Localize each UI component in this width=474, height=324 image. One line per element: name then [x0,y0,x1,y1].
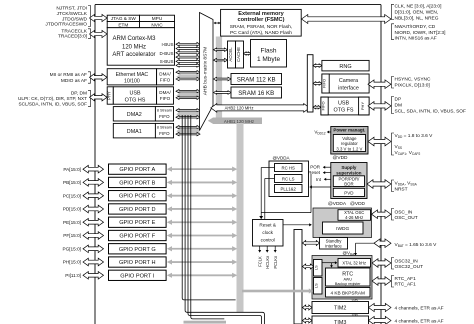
svg-text:GPIO PORT E: GPIO PORT E [119,220,155,226]
wire TIM2 APB arrow [303,305,313,310]
bus AHB2 120 MHz [211,104,310,113]
svg-text:PI[11:0]: PI[11:0] [65,273,81,278]
svg-text:PC Card (ATA), NAND Flash: PC Card (ATA), NAND Flash [230,30,292,36]
wire APB2 bus line [182,115,235,300]
wire NRST arrow [367,180,391,189]
block External memory controller FSMC [221,9,302,36]
svg-text:CLK, NE [3:0], A[23:0]: CLK, NE [3:0], A[23:0] [395,4,442,10]
node VDD pins label [392,133,395,155]
wire port E AHB1 connection [171,221,233,223]
svg-text:SRAM 16 KB: SRAM 16 KB [238,90,274,97]
wire OSC pins arrow [372,210,392,219]
svg-text:RNG: RNG [339,64,351,70]
svg-text:DMA1: DMA1 [127,129,142,135]
wire matrix-ACCEL arrows [214,48,228,51]
node USB FS pins label [392,97,395,114]
chip right border [380,5,382,324]
bus AHB1 120 MHz [213,118,262,125]
svg-text:PVD: PVD [344,190,354,195]
svg-text:AHB bus-matrix 8S7M: AHB bus-matrix 8S7M [203,47,209,95]
bus AHB bus-matrix [200,13,214,131]
svg-text:PLL1&2: PLL1&2 [281,186,297,191]
svg-text:DMA2: DMA2 [127,112,142,118]
bus APB1 vertical bar [294,230,302,324]
svg-text:JTAG & SW: JTAG & SW [111,16,136,21]
bus gray bottom stub [184,321,227,324]
svg-text:JTDO/SWD: JTDO/SWD [62,16,88,22]
svg-text:NRST: NRST [395,186,408,192]
wire FCLK output [259,246,261,251]
wire camera pins arrow [368,80,391,89]
block Ethernet DMA/FIFO [157,69,174,85]
wire OSC32 pins arrow [372,259,391,268]
svg-text:@VDDA: @VDDA [272,155,289,160]
svg-text:S-BUS: S-BUS [160,59,174,64]
svg-text:I-BUS: I-BUS [161,42,173,47]
svg-text:DMA/: DMA/ [159,72,171,77]
svg-text:@VDDA: @VDDA [328,201,347,207]
block DMA2 FIFO [155,107,173,121]
block RC HS oscillator [275,164,303,172]
wire Ethernet arrow [90,74,108,81]
wire supply-PLL arrow [310,186,331,188]
block IWDG [323,222,364,234]
wire RC HS to clock control [261,167,274,169]
svg-text:clock: clock [262,230,273,235]
svg-text:SRAM 112 KB: SRAM 112 KB [237,77,276,84]
wire port G AHB1 connection [171,248,233,250]
svg-text:ETM: ETM [118,22,128,27]
svg-text:FIFO: FIFO [160,78,171,83]
wire XTAL32 to RTC [331,263,333,267]
svg-text:@VDD: @VDD [333,155,349,161]
svg-text:DP: DP [395,97,402,103]
svg-text:Reset: Reset [308,170,321,175]
wire APB1 to LS2 gray arrow [242,290,309,293]
block DMA1 [113,123,155,137]
block SRAM 112 KB [231,74,282,85]
wire VBAT arrow [374,239,391,248]
wire DMA1-matrix arrows [176,126,200,129]
svg-text:4 channels, ETR as AF: 4 channels, ETR as AF [395,319,444,324]
block Flash 1 Mbyte [251,40,287,68]
svg-text:XTAL 32 kHz: XTAL 32 kHz [342,261,366,266]
block RTC LS interface 2 [314,278,323,295]
wire LS1 APB arrow [303,264,314,269]
wire Ethernet-matrix arrows [176,71,200,74]
wire port B AHB1 connection [171,181,233,183]
svg-text:Camera: Camera [339,78,358,84]
svg-text:LS: LS [314,265,319,270]
wire port F pin arrow [83,232,104,240]
block TIM3 [312,316,369,324]
svg-text:GPIO PORT D: GPIO PORT D [119,207,155,213]
wire port I pin arrow [83,272,104,280]
svg-text:Reset &: Reset & [259,223,277,228]
svg-text:PG[15:0]: PG[15:0] [62,246,81,251]
svg-text:ARM Cortex-M3: ARM Cortex-M3 [112,36,156,42]
wire RTC AF arrow [372,277,391,286]
wire LS to XTAL32 arrow [322,262,337,264]
svg-text:NWAIT/IORDY, CD: NWAIT/IORDY, CD [395,24,436,30]
wire PCLKx output [274,246,276,251]
wire TIM2 pins arrow [369,303,392,311]
svg-text:BOR: BOR [344,182,353,187]
wire I-BUS arrows [176,42,200,46]
block DMA1 FIFO [155,123,173,137]
block oscillator gray region [313,208,372,238]
svg-text:PHY: PHY [360,102,365,111]
svg-text:GPIO PORT F: GPIO PORT F [119,234,155,240]
svg-text:interface: interface [325,243,342,248]
bus FSMC gray vertical path [216,37,222,123]
node OSC pins label [392,209,395,221]
svg-text:TIM3: TIM3 [334,320,346,324]
wire USB FS pins arrow [368,102,391,111]
svg-text:4 KB BKPSRAM: 4 KB BKPSRAM [331,291,365,296]
svg-text:D-BUS: D-BUS [159,51,173,56]
svg-text:ACCEL: ACCEL [228,47,233,62]
svg-text:FIFO: FIFO [321,101,326,110]
block ACCEL/CACHE [228,41,236,68]
svg-text:FCLK: FCLK [257,256,262,267]
block ARM Cortex-M3 CPU [107,28,174,65]
wire TIM3 pins arrow [369,316,392,324]
svg-text:SCL/SDA, INTN, ID, VBUS, SOF: SCL/SDA, INTN, ID, VBUS, SOF [18,102,87,107]
wire matrix-SRAM112 arrow [214,77,232,81]
svg-text:controller (FSMC): controller (FSMC) [238,17,285,23]
block backup domain gray region [312,256,372,300]
svg-text:GPIO PORT G: GPIO PORT G [119,247,156,253]
wire port D pin arrow [83,205,104,213]
svg-text:Power managt.: Power managt. [333,128,365,133]
block SRAM 16 KB [231,87,282,98]
wire port G pin arrow [83,245,104,253]
svg-text:NJTRST, JTDI: NJTRST, JTDI [56,6,87,12]
wire port I AHB1 connection [171,274,233,276]
block USB OTG HS [113,87,156,104]
svg-text:MII or RMII as AF: MII or RMII as AF [50,72,87,78]
block XTAL OSC 4-26 MHz [338,210,371,221]
block GPIO PORT I [109,270,167,280]
svg-text:AWU: AWU [343,277,352,281]
block PLL1&2 [275,185,303,193]
block PVD [333,188,364,196]
svg-text:MPU: MPU [152,16,163,21]
svg-text:GPIO PORT I: GPIO PORT I [120,273,154,279]
node FSMC pins label [392,4,395,19]
svg-text:4 channels, ETR as AF: 4 channels, ETR as AF [395,306,444,312]
svg-text:FIFO: FIFO [159,114,170,119]
svg-text:DM: DM [395,103,402,109]
svg-text:NVIC: NVIC [151,22,163,27]
svg-text:32b: 32b [351,298,357,302]
svg-text:D[31:0], OEN, WEN,: D[31:0], OEN, WEN, [395,10,439,16]
svg-text:NBL[3:0], NL, NREG: NBL[3:0], NL, NREG [395,16,439,22]
svg-text:OSC_IN: OSC_IN [395,209,413,215]
node camera pins label [392,77,395,89]
wire port A AHB1 connection [171,168,233,170]
svg-text:120 MHz: 120 MHz [122,44,146,50]
svg-text:VCAP1, VCAP2: VCAP1, VCAP2 [395,150,421,156]
wire S-BUS arrows [176,60,200,64]
wire TRACE arrow [90,30,108,37]
svg-text:4-26 MHz: 4-26 MHz [345,215,363,220]
svg-text:LS: LS [314,283,319,288]
svg-text:PHY: PHY [106,91,111,100]
wire USB HS-matrix arrows [176,90,200,93]
svg-text:ULPI: CK, D(7:0), DIR, STP, NX: ULPI: CK, D(7:0), DIR, STP, NXT [18,96,87,101]
block XTAL 32 kHz [338,259,371,268]
svg-text:Backup register: Backup register [335,282,361,286]
block supply supervision [331,163,367,199]
svg-text:OSC_OUT: OSC_OUT [395,215,418,221]
svg-text:GPIO PORT A: GPIO PORT A [119,167,155,173]
svg-text:Ethernet MAC: Ethernet MAC [116,72,149,78]
svg-text:8 Stream: 8 Stream [157,125,172,129]
svg-text:GPIO PORT H: GPIO PORT H [119,260,155,266]
wire RC LS to clock control [265,178,275,180]
svg-text:GPIO PORT C: GPIO PORT C [119,194,155,200]
block GPIO PORT D [109,204,167,214]
svg-text:HSYNC, VSYNC: HSYNC, VSYNC [395,77,432,83]
svg-text:JTCK/SWCLK: JTCK/SWCLK [57,11,88,17]
svg-text:USB: USB [129,90,140,96]
block clock sources group [269,161,309,197]
block USB HS DMA/FIFO [157,87,174,104]
block RTC [326,268,371,286]
wire DMA2-matrix arrows [176,109,200,112]
chip left border [94,5,96,324]
svg-text:TRACECLK: TRACECLK [61,28,87,34]
wire clock control to XTAL OSC [283,224,311,226]
svg-text:PCLKx: PCLKx [273,256,278,269]
wire matrix-SRAM16 arrow [214,91,232,95]
svg-text:PB[15:0]: PB[15:0] [63,180,81,185]
wire HCLKx output [266,246,268,251]
wire APB1 bus line [185,115,264,324]
svg-text:interface: interface [338,85,359,91]
wire port F AHB1 connection [171,235,233,237]
block MPU [140,15,175,21]
svg-text:ART accelerator: ART accelerator [112,52,155,58]
block POR/PDR/BOR [333,176,364,187]
svg-text:AHB2 120 MHz: AHB2 120 MHz [225,106,254,111]
wire VDD pins arrow [368,137,391,146]
block RC LS oscillator [275,175,303,183]
wire port C AHB1 connection [171,195,233,197]
wire port H AHB1 connection [171,261,233,263]
svg-text:PD[15:0]: PD[15:0] [63,207,81,212]
svg-text:PIXCLK, D[13:0]: PIXCLK, D[13:0] [395,83,430,89]
block GPIO PORT C [109,191,167,201]
svg-text:@VDD: @VDD [350,201,366,207]
block GPIO PORT E [109,217,167,227]
svg-text:VDD12: VDD12 [314,130,325,136]
node RTC_AF label [392,276,395,288]
svg-text:VSS: VSS [395,144,402,150]
svg-text:PE[15:0]: PE[15:0] [63,220,81,225]
wire bar-USBFS arrow [313,105,321,109]
wire USB HS arrow [90,94,108,101]
block GPIO PORT A [109,164,167,174]
block power management [331,127,368,155]
node VDDA/NRST label [392,180,395,192]
node OSC32 pins label [392,258,395,270]
svg-text:PC[15:0]: PC[15:0] [63,193,81,198]
block RNG [322,60,369,71]
svg-text:FIFO: FIFO [160,96,171,101]
block Ethernet MAC 10/100 [107,69,156,85]
wire matrix-FSMC arrow [215,22,219,24]
svg-text:RTC_AF1: RTC_AF1 [395,276,417,282]
wire port A pin arrow [83,165,104,173]
wire D-BUS arrows [176,51,200,55]
svg-text:HCLKx: HCLKx [265,256,270,269]
bus AHB2 right vertical bar [307,55,313,112]
wire FSMC external bus arrow [302,15,392,24]
svg-text:PA[15:0]: PA[15:0] [63,167,81,172]
svg-text:DMA/: DMA/ [159,90,171,95]
bus AHB1 vertical [237,123,244,312]
svg-text:JTDO/TRACESWO: JTDO/TRACESWO [45,22,87,28]
block USB OTG FS [321,97,369,115]
wire standby APB arrow [303,241,320,246]
block DMA2 [113,107,155,121]
wire bar-RNG arrow [313,64,322,68]
block standby interface [320,238,348,250]
chip top border [95,4,381,6]
svg-text:MDIO as AF: MDIO as AF [61,78,87,84]
block TIM2 [312,302,369,314]
svg-text:1 Mbyte: 1 Mbyte [257,56,281,63]
block ETM [107,22,139,28]
block GPIO PORT B [109,177,167,187]
svg-text:16b: 16b [351,313,357,317]
svg-text:RC HS: RC HS [282,165,296,170]
svg-text:OSC32_OUT: OSC32_OUT [395,264,424,270]
svg-text:GPIO PORT B: GPIO PORT B [119,180,155,186]
svg-text:Supply: Supply [341,165,356,170]
svg-text:TRACED[3:0]: TRACED[3:0] [58,34,87,40]
wire CACHE-Flash arrow [244,52,251,55]
wire AHB-APB bridge line 2 [191,115,225,319]
svg-text:VBAT = 1.65 to 3.6 V: VBAT = 1.65 to 3.6 V [395,242,438,248]
svg-text:8 Stream: 8 Stream [157,109,172,113]
block JTAG & SW [107,15,139,21]
svg-text:RC LS: RC LS [282,176,295,181]
svg-text:INTN, NIIS16 as AF: INTN, NIIS16 as AF [395,36,437,42]
block reset and clock control [253,220,284,247]
svg-text:FIFO: FIFO [159,131,170,136]
wire port B pin arrow [83,179,104,187]
block USB OTG HS PHY [107,87,113,104]
svg-text:PF[15:0]: PF[15:0] [63,233,81,238]
block NVIC [140,22,175,28]
wire TIM3 APB arrow [303,318,313,323]
svg-text:3.3 V to 1.2 V: 3.3 V to 1.2 V [336,146,362,151]
svg-text:10/100: 10/100 [124,79,140,85]
svg-text:supervision: supervision [336,170,362,175]
block GPIO PORT H [109,257,167,267]
svg-text:POR: POR [310,165,321,170]
block GPIO PORT G [109,244,167,254]
svg-text:VDDA, VSSA: VDDA, VSSA [395,180,418,186]
svg-text:OSC32_IN: OSC32_IN [395,258,419,264]
wire JTAG arrow [90,14,108,21]
svg-text:NIORD, IOWR, INT[2:3]: NIORD, IOWR, INT[2:3] [395,30,446,36]
block camera interface [322,74,369,93]
wire port H pin arrow [83,258,104,266]
svg-text:CACHE: CACHE [236,47,241,62]
svg-text:OTG HS: OTG HS [125,97,146,103]
svg-text:Int: Int [316,177,322,182]
block 4 KB BKPSRAM [326,288,371,298]
block RTC LS interface 1 [314,260,323,277]
block GPIO PORT F [109,230,167,240]
wire AHB-APB bridge line 1 [188,115,262,324]
svg-text:VDD = 1.8 to 3.6 V: VDD = 1.8 to 3.6 V [395,133,434,139]
svg-text:USB: USB [338,101,349,107]
wire bar-camera arrow [313,82,322,86]
svg-text:RTC_AF1: RTC_AF1 [395,282,417,288]
svg-text:IWDG: IWDG [336,226,349,232]
svg-text:OTG FS: OTG FS [333,108,353,114]
svg-text:FIFO: FIFO [322,79,327,88]
wire supply reset to clock control [310,174,312,213]
svg-text:PH[15:0]: PH[15:0] [63,260,81,265]
svg-text:TIM2: TIM2 [334,306,346,312]
wire port E pin arrow [83,218,104,226]
svg-text:SRAM, PSRAM, NOR Flash,: SRAM, PSRAM, NOR Flash, [230,24,293,30]
svg-text:Flash: Flash [261,48,277,55]
wire port D AHB1 connection [171,208,233,210]
svg-text:control: control [261,238,275,243]
svg-text:SCL, SDA, INTN, ID, VBUS, SOF: SCL, SDA, INTN, ID, VBUS, SOF [395,109,467,115]
wire port C pin arrow [83,192,104,200]
